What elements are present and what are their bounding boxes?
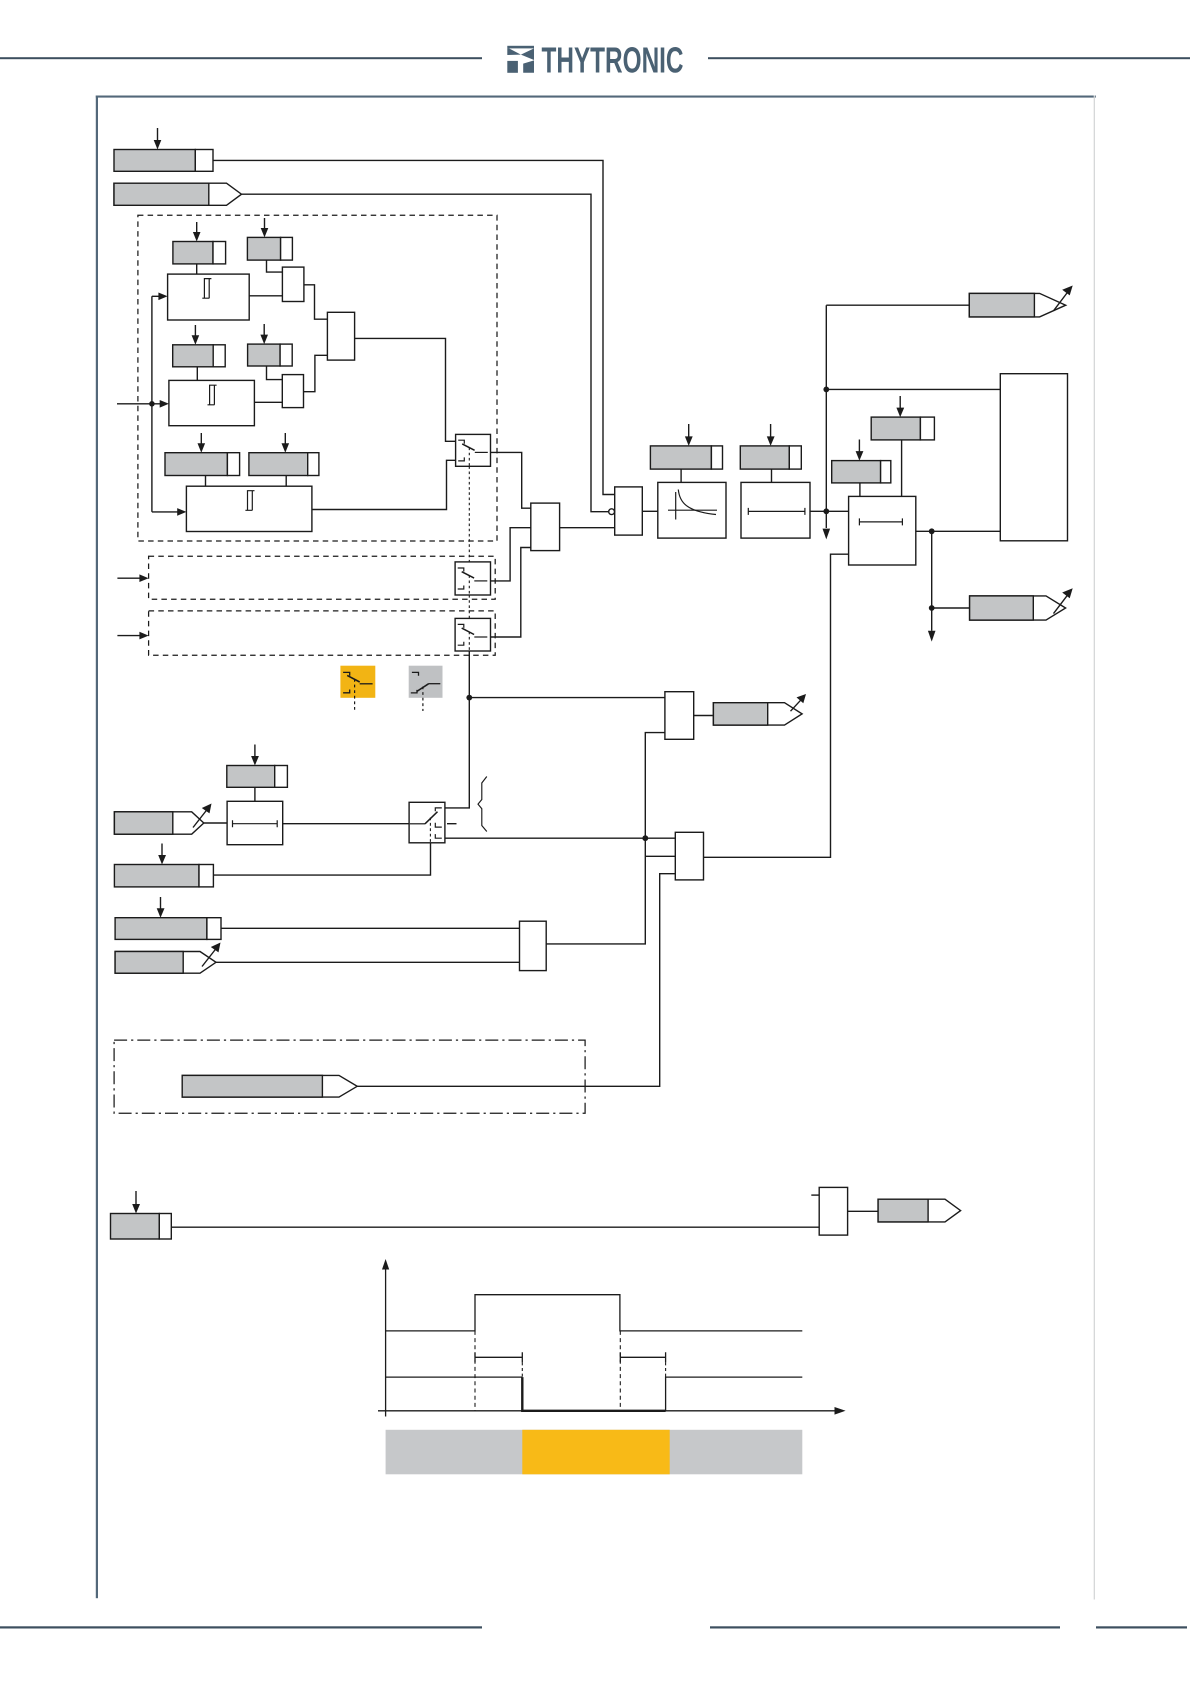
wire IN4 to AND gate U11 (216, 961, 520, 963)
wire B1 output to gate U2 (560, 527, 615, 529)
connector block 2a to comparator K2 (196, 367, 198, 381)
dashed control line SW1 to SW2 (468, 466, 470, 562)
down arrow into U4 setting block (767, 424, 775, 446)
wire U8 second input from node N2 (645, 733, 665, 839)
timing diagram (378, 1259, 846, 1474)
setting block 2a (173, 345, 226, 367)
down arrow into U10 setting (251, 745, 259, 766)
footer rule left (0, 1626, 482, 1628)
node: input junction dot (149, 401, 155, 407)
connector setting to U3 (680, 469, 682, 482)
connector block 3b to comparator K3 (285, 476, 287, 487)
wire SW4 output to OR gate U9 (445, 837, 675, 839)
waveform output signal right (666, 1377, 803, 1411)
waveform output bold blocked segment (522, 1377, 665, 1411)
wire K2 output to S2 (254, 401, 282, 403)
output pentagon OUT1 (969, 293, 1065, 317)
setting block for U4 (time delay) (740, 446, 801, 469)
dashed marker line 4 (665, 1362, 667, 1377)
timer glyph in U5 (859, 518, 902, 525)
connector block 2b to logic S2 (267, 366, 283, 380)
logic box S2 (282, 375, 303, 408)
wire IN2 to SW4 control (213, 843, 430, 875)
control input block IN2 (114, 865, 213, 887)
Thytronic logo icon (507, 46, 534, 73)
setting block for U5 lower (832, 461, 891, 483)
output pentagon OUT3 (713, 703, 802, 725)
waveform output signal left (386, 1376, 523, 1378)
header rule right (708, 57, 1190, 59)
curve glyph in U3 (668, 490, 717, 520)
control line SW3 down to node N1 (468, 651, 470, 698)
wire U5 left exit down to OR gate U9 output return (704, 554, 849, 857)
setting block 2b (248, 344, 293, 366)
OR gate U9 (675, 832, 703, 880)
down arrow into U3 setting block (685, 424, 693, 446)
node N1 junction dot (466, 695, 472, 701)
status bar gray (386, 1430, 803, 1475)
tu bar 2 (620, 1352, 665, 1362)
wire IN6 to gate U12 (171, 1226, 819, 1228)
wire from block A to gate U2 top input (213, 160, 615, 494)
diagonal arrow on OUT3 (791, 694, 807, 711)
setting block for U5 upper (871, 417, 934, 440)
input arrow into dashed box 2 (117, 574, 148, 582)
branch wire down to OUT2 (931, 531, 933, 608)
input bus vertical wire (151, 296, 153, 512)
setting block for U10 (227, 766, 288, 788)
wire IN1 to timer U10 (204, 822, 227, 824)
setting block 3a (165, 453, 240, 476)
wire IN3 to AND gate U11 (221, 927, 520, 929)
diagonal arrow on IN4 (202, 943, 221, 967)
output pentagon OUT5 (878, 1199, 961, 1222)
main measurement input line (117, 403, 160, 405)
wire S2 output to OR gate O1 (304, 355, 328, 391)
timer block U10 (227, 801, 283, 844)
wire SW3 output to gate B1 (491, 548, 531, 638)
wire U4 output to timer U5 (810, 510, 849, 512)
input arrow into dashed box 3 (117, 632, 148, 640)
OR gate B1 (stage outputs) (531, 503, 560, 550)
down arrow into block 3a (198, 433, 206, 453)
comparator K3 (186, 486, 312, 531)
setting block for U3 (curve type) (650, 446, 722, 469)
wire S1 output to OR gate O1 (304, 285, 328, 319)
inverse-time curve block U3 (658, 482, 726, 538)
wire U10 output to switch SW4 (283, 823, 409, 825)
setting block A (top input register) (114, 150, 213, 172)
wire node N1 down to switch SW4 select input (445, 698, 469, 808)
OR gate U8 (665, 692, 694, 740)
OR gate O1 (327, 312, 354, 360)
connector U5 lower setting to U5 (859, 483, 861, 497)
wire node N1 to OR gate U8 (469, 697, 665, 699)
input arrow into K2 (160, 400, 169, 408)
down arrow into IN2 (158, 844, 166, 865)
waveform input signal (386, 1295, 803, 1331)
gate U12 (819, 1187, 847, 1235)
timer block U4 (741, 482, 810, 538)
hysteresis glyph in K3 (245, 491, 254, 511)
wire U11 output up to OR gate U9 (546, 838, 645, 944)
wire O1 output to switch SW1 (355, 338, 456, 441)
stub wire to U9 middle input (645, 855, 675, 857)
input pentagon B (114, 183, 242, 205)
dashed marker line 3 (521, 1362, 523, 1377)
connector block 1a to comparator K1 (196, 264, 198, 274)
brace glyph right of SW4 (478, 777, 487, 832)
AND gate U2 with inverted input (615, 487, 643, 535)
wire SW2 output to gate B1 (491, 528, 531, 581)
logic box S1 (282, 267, 304, 301)
timer glyph in U4 (748, 508, 805, 515)
comparator K1 (168, 274, 250, 320)
AND gate U11 (520, 921, 547, 970)
hysteresis glyph in K1 (202, 279, 211, 299)
switch SW4 (409, 802, 445, 843)
diagonal arrow on IN1 (193, 804, 212, 828)
down arrow into U5 lower setting (856, 440, 864, 461)
comparator K2 (169, 380, 255, 425)
node dot U5 output branch (929, 528, 935, 534)
input pentagon IN1 (114, 812, 203, 834)
legend icon yellow (blocked position) (340, 666, 375, 711)
wire U8 output to OUT3 (694, 715, 713, 717)
connector block 3a to comparator K3 (205, 476, 207, 487)
trip bus vertical wire (825, 305, 827, 528)
content frame top border (96, 96, 1096, 98)
legend icon gray (enabled position) (409, 666, 443, 711)
timing y-axis (382, 1259, 389, 1417)
matrix block U7 (1000, 374, 1067, 541)
wire K3 output to switch SW1 (312, 460, 456, 509)
hysteresis glyph in K2 (208, 385, 217, 405)
node dot at OUT2 branch (929, 605, 935, 611)
wire IN5 up to OR gate U9 third input (357, 874, 675, 1087)
status bar yellow segment (522, 1430, 669, 1475)
wire trip bus to matrix U7 (826, 388, 1000, 390)
wire trip bus to output pentagon OUT1 (826, 304, 969, 306)
timing x-axis (378, 1407, 846, 1415)
input pentagon IN5 inside dash-dot box (182, 1075, 357, 1097)
timer glyph in U10 (233, 820, 278, 827)
connector U10 setting to U10 (254, 787, 256, 801)
down arrow into block 1a (193, 222, 201, 242)
input block IN6 (bottom row) (111, 1214, 172, 1240)
switch SW2 (455, 562, 490, 595)
dashed marker line 1 (474, 1331, 476, 1411)
wire U2 output to curve block U3 (642, 510, 658, 512)
input arrow into K3 (152, 508, 187, 516)
down arrow into block 2b (260, 324, 268, 344)
diagonal arrow on OUT1 (1054, 286, 1073, 311)
input arrow into K1 (152, 293, 168, 301)
wire from pentagon B to gate U2 inverted input (242, 194, 610, 512)
down arrow into IN3 (157, 897, 165, 918)
diagonal arrow on OUT2 (1054, 588, 1073, 613)
content frame left border (96, 96, 98, 1599)
setting block 3b (249, 453, 319, 476)
dashed control line SW2 to SW3 (468, 595, 470, 618)
down arrow into block A (154, 128, 162, 150)
wire U5 output to matrix U7 (916, 530, 1001, 532)
dashed group box 3 (third threshold stage) (149, 611, 496, 655)
wire U12 output to OUT5 (848, 1210, 879, 1212)
wire SW1 output to gate B1 (491, 452, 531, 508)
down arrow into block 2a (192, 325, 200, 345)
dash-dot group box (communication section) (114, 1040, 585, 1113)
down arrow into IN6 (132, 1191, 140, 1214)
header rule left (0, 57, 482, 59)
dashed marker line 2 (619, 1331, 621, 1411)
switch SW1 (456, 434, 491, 466)
node N2 junction dot (642, 835, 648, 841)
input block IN3 (115, 918, 221, 940)
down arrow into block 1b (261, 218, 269, 237)
setting block 1a (173, 242, 226, 264)
footer rule right (1096, 1626, 1187, 1628)
tu bar 1 (475, 1352, 522, 1362)
node dot trip bus to matrix U7 (823, 387, 829, 393)
output pentagon OUT2 (970, 596, 1066, 620)
connector block 1b to logic S1 (267, 260, 283, 272)
stub on U12 top-left input (811, 1194, 819, 1196)
down arrow end of OUT2 branch (928, 608, 936, 642)
down arrow end of trip bus (823, 529, 831, 540)
NOT bubble on U2 input (609, 509, 615, 515)
dashed group box 2 (second threshold stage) (149, 556, 496, 599)
input pentagon IN4 (115, 952, 216, 974)
content frame right border (faint) (1094, 96, 1095, 1600)
wire K1 output to S1 (249, 295, 282, 297)
wire to output pentagon OUT2 (932, 607, 970, 609)
connector U5 upper setting to U5 (901, 440, 903, 497)
connector setting to U4 (771, 469, 773, 482)
switch SW3 (455, 618, 490, 651)
setting block 1b (247, 237, 292, 260)
footer rule middle (710, 1626, 1060, 1628)
node dot U4 output / trip bus (823, 508, 829, 514)
down arrow into block 3b (282, 433, 290, 453)
stub on SW4 right middle (447, 823, 457, 825)
down arrow into U5 upper setting (896, 396, 904, 417)
timer block U5 (849, 496, 916, 565)
dashed group box 1 (first threshold stage) (138, 215, 497, 541)
svg-text:THYTRONIC: THYTRONIC (542, 39, 684, 80)
